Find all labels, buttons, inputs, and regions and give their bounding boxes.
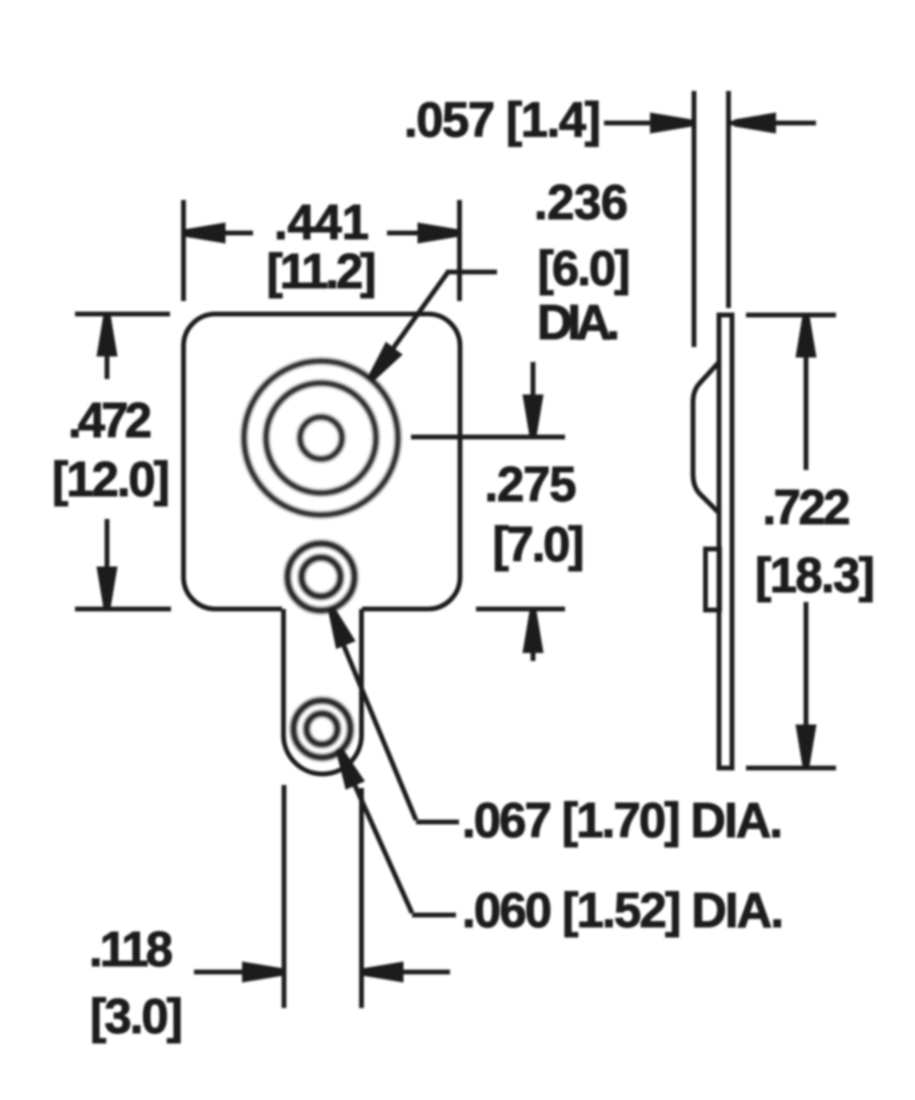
svg-text:.118: .118 (89, 923, 173, 977)
svg-text:.057 [1.4]: .057 [1.4] (404, 94, 601, 148)
svg-text:[7.0]: [7.0] (493, 518, 585, 572)
svg-text:DIA.: DIA. (537, 296, 620, 350)
svg-text:.060 [1.52] DIA.: .060 [1.52] DIA. (462, 884, 784, 938)
svg-text:.275: .275 (485, 458, 577, 512)
svg-text:.236: .236 (534, 176, 628, 230)
svg-text:[18.3]: [18.3] (755, 549, 875, 603)
svg-text:[11.2]: [11.2] (267, 245, 377, 299)
svg-text:[6.0]: [6.0] (538, 242, 631, 296)
svg-text:[12.0]: [12.0] (52, 453, 170, 507)
svg-text:.722: .722 (763, 481, 851, 535)
svg-text:.067 [1.70] DIA.: .067 [1.70] DIA. (462, 794, 783, 848)
svg-text:.441: .441 (274, 196, 369, 250)
svg-text:.472: .472 (68, 394, 152, 448)
svg-text:[3.0]: [3.0] (90, 990, 183, 1044)
